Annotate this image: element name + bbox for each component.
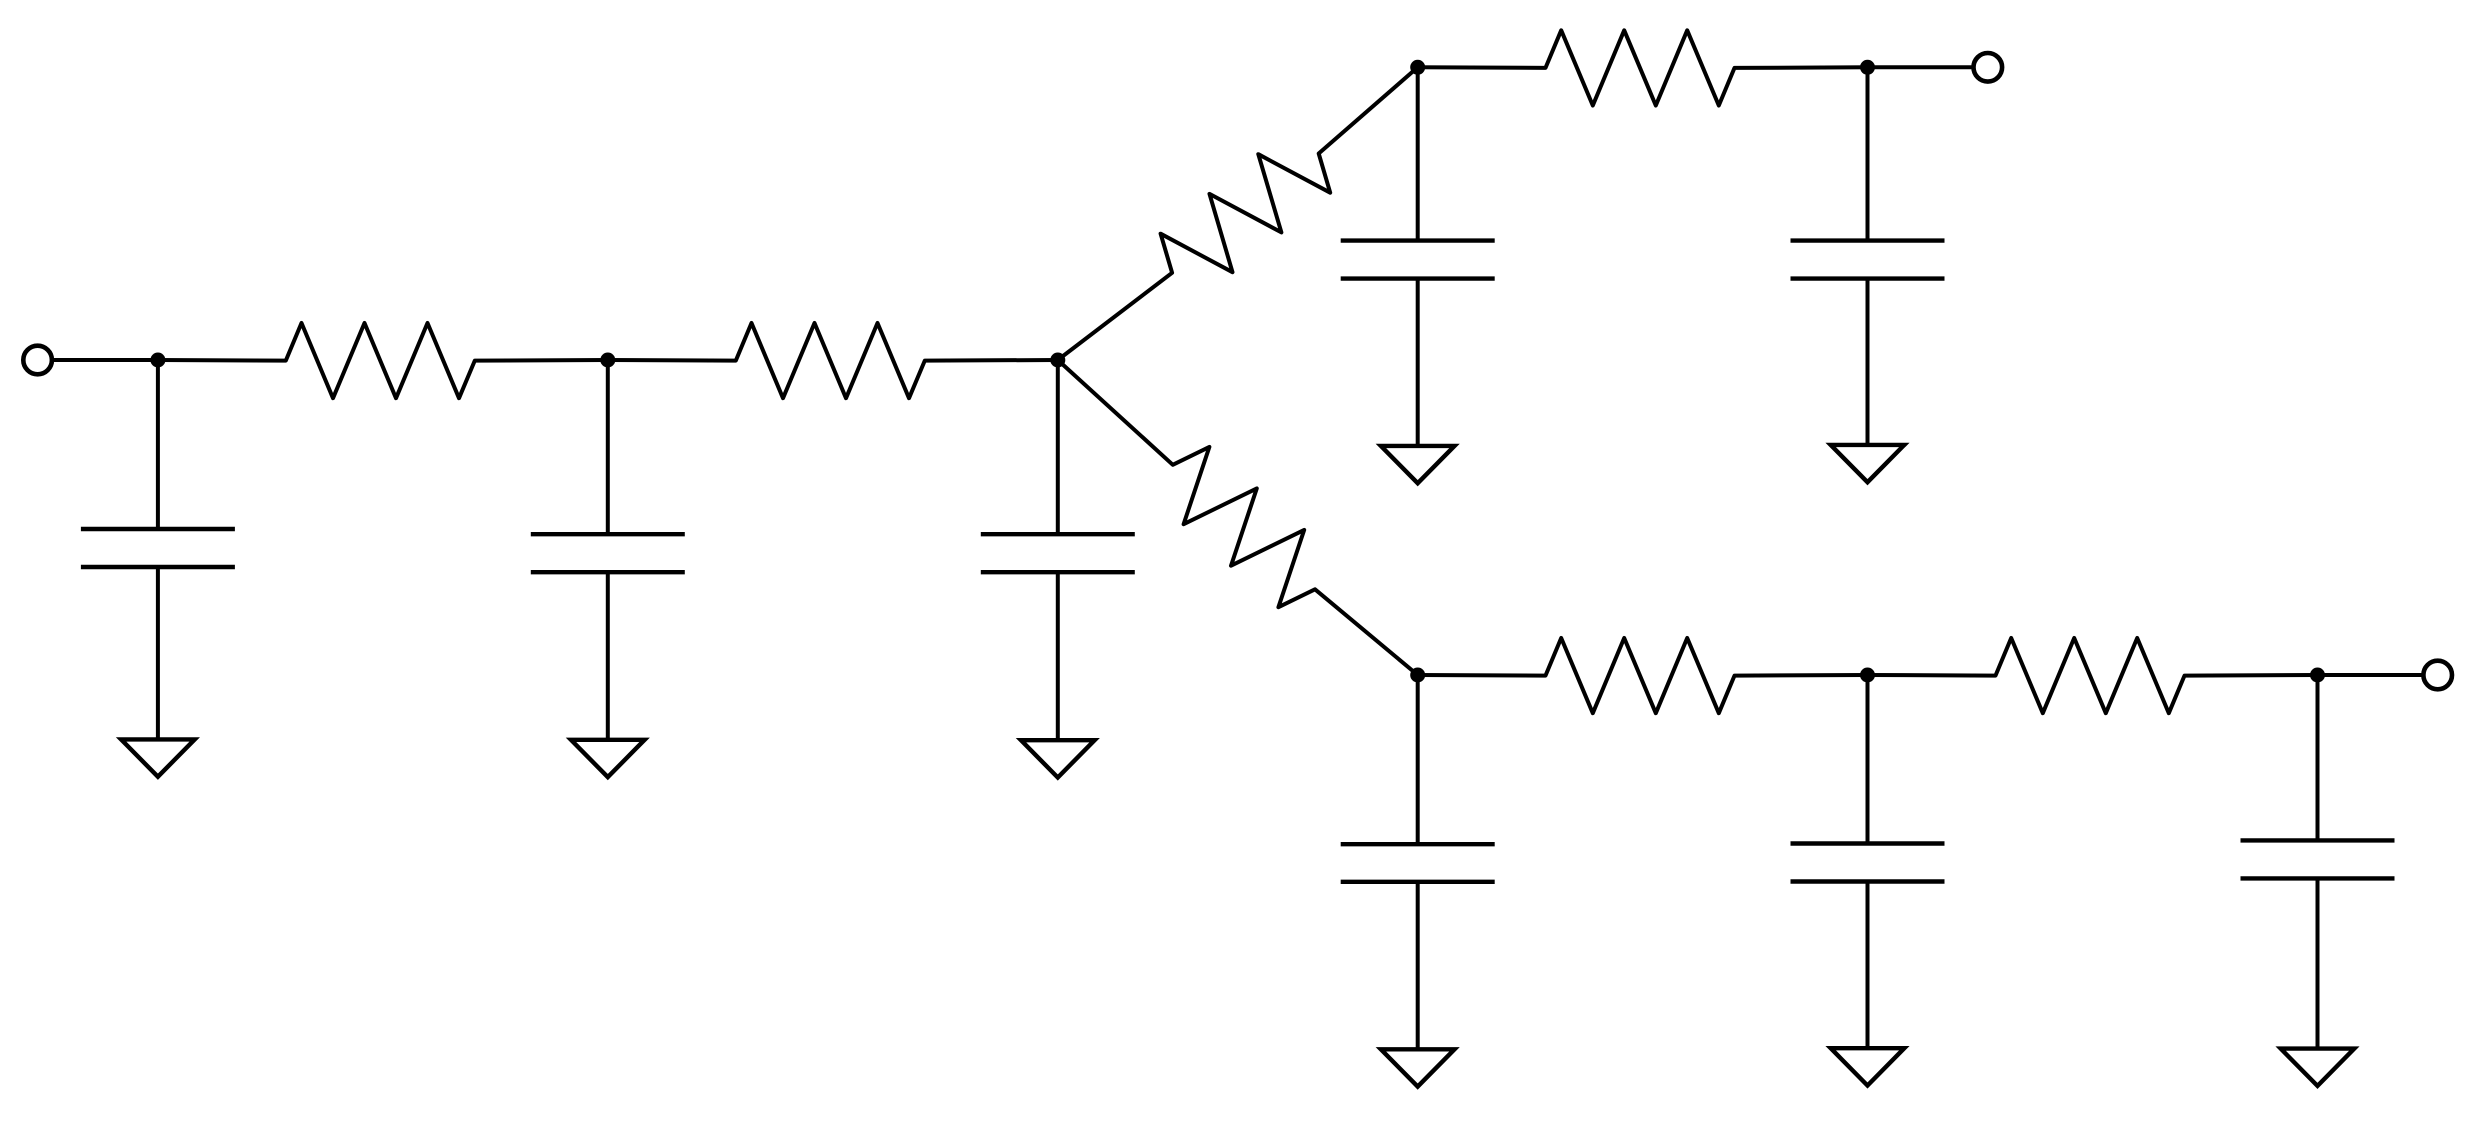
wire from capacitor to ground GND5 xyxy=(1866,279,1870,445)
wire from node to capacitor C2 at node B xyxy=(606,360,610,534)
node C (junction dot) xyxy=(1050,353,1065,368)
wire from node to capacitor C3 at node C xyxy=(1056,360,1060,534)
capacitor C3 at node C xyxy=(981,532,1135,536)
node D (junction dot) xyxy=(1410,60,1425,75)
node F (junction dot) xyxy=(1410,668,1425,683)
capacitor C5 at node E xyxy=(1791,238,1945,242)
wire node H to output terminal 2 xyxy=(2318,673,2438,677)
wire from capacitor to ground GND1 xyxy=(156,567,160,739)
resistor R7 between node G and node H (wire leads + zigzag) xyxy=(1868,638,2318,713)
resistor R5 between node D and node E (wire leads + zigzag) xyxy=(1418,30,1868,105)
node G (junction dot) xyxy=(1860,668,1875,683)
wire from node to capacitor C1 at node A xyxy=(156,360,160,529)
ground symbol GND8 xyxy=(2281,1049,2355,1086)
resistor R1 between node A and node B (wire leads + zigzag) xyxy=(158,323,608,398)
resistor R4 diagonal between node C and node F (wire leads + zigzag) xyxy=(1058,360,1418,675)
resistor R3 diagonal between node C and node D (wire leads + zigzag) xyxy=(1058,67,1418,360)
wire from capacitor to ground GND6 xyxy=(1416,882,1420,1050)
capacitor C7 at node G xyxy=(1791,841,1945,845)
wire from capacitor to ground GND3 xyxy=(1056,572,1060,740)
wire input terminal to node A xyxy=(38,358,158,362)
ground symbol GND1 xyxy=(121,739,195,776)
node H (junction dot) xyxy=(2310,668,2325,683)
ground symbol GND4 xyxy=(1381,446,1455,483)
terminal output 1 (open circle) xyxy=(1974,53,2003,82)
terminal output 2 (open circle) xyxy=(2423,661,2452,690)
capacitor C1 at node A xyxy=(81,527,235,531)
wire from node to capacitor C5 at node E xyxy=(1866,67,1870,240)
wire from capacitor to ground GND7 xyxy=(1866,882,1870,1049)
ground symbol GND3 xyxy=(1021,740,1095,777)
wire from node to capacitor C7 at node G xyxy=(1866,675,1870,844)
capacitor C8 at node H xyxy=(2241,838,2395,842)
wire from node to capacitor C6 at node F xyxy=(1416,675,1420,844)
wire from node to capacitor C8 at node H xyxy=(2316,675,2320,840)
wire from node to capacitor C4 at node D xyxy=(1416,67,1420,240)
node B (junction dot) xyxy=(600,353,615,368)
node E (junction dot) xyxy=(1860,60,1875,75)
wire from capacitor to ground GND4 xyxy=(1416,279,1420,446)
ground symbol GND7 xyxy=(1831,1048,1905,1085)
resistor R6 between node F and node G (wire leads + zigzag) xyxy=(1418,638,1868,713)
wire from capacitor to ground GND8 xyxy=(2316,878,2320,1048)
ground symbol GND6 xyxy=(1381,1049,1455,1086)
ground symbol GND2 xyxy=(571,740,645,777)
wire node E to output terminal 1 xyxy=(1868,65,1988,69)
wire from capacitor to ground GND2 xyxy=(606,572,610,740)
terminal input (open circle) xyxy=(23,346,52,375)
capacitor C2 at node B xyxy=(531,532,685,536)
node A (junction dot) xyxy=(150,353,165,368)
resistor R2 between node B and node C (wire leads + zigzag) xyxy=(608,323,1058,398)
ground symbol GND5 xyxy=(1831,445,1905,482)
capacitor C6 at node F xyxy=(1341,842,1495,846)
capacitor C4 at node D xyxy=(1341,238,1495,242)
